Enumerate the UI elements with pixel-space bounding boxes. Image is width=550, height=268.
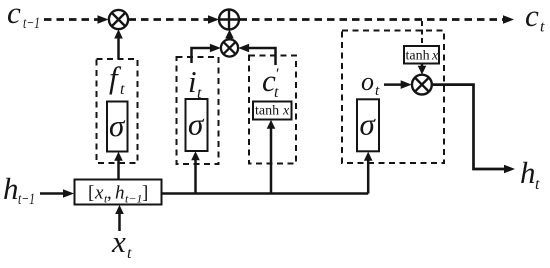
multiply node M3 [412, 75, 432, 95]
svg-text:c: c [7, 0, 21, 30]
svg-text:h: h [115, 183, 125, 204]
svg-text:x: x [431, 49, 439, 64]
node x_t label [111, 224, 132, 262]
svg-text:h: h [3, 171, 19, 206]
svg-text:t: t [535, 176, 540, 193]
tanh label output [406, 49, 440, 64]
wire arrow o_t to M3 [384, 80, 412, 89]
svg-text:σ: σ [109, 108, 126, 143]
wire M3 to h_t output [432, 85, 515, 174]
svg-text:σ: σ [188, 107, 205, 142]
sigma glyph o [360, 107, 377, 142]
multiply node M1 [109, 10, 128, 29]
svg-text:tanh: tanh [255, 104, 279, 119]
node c_t label [525, 0, 545, 36]
input gate dashed box [177, 57, 219, 164]
svg-text:x: x [282, 104, 290, 119]
wire arrow concat box to sigma f [114, 152, 123, 180]
wire dashed from c_{t-1} to multiply M1 [44, 15, 109, 24]
adder node A1 [219, 10, 239, 30]
svg-text:i: i [188, 64, 197, 99]
svg-text:h: h [520, 155, 536, 190]
svg-text:,: , [107, 183, 112, 204]
candidate gate dashed box [249, 56, 296, 164]
wire dashed from M1 to adder A1 [129, 15, 220, 24]
concat box [x_t, h_{t-1}] [75, 180, 162, 205]
sigma box o [357, 99, 379, 151]
wire arrow tanh output to M3 [418, 64, 427, 75]
svg-text:t−1: t−1 [125, 192, 142, 206]
wire candidate gate to M2 [238, 44, 275, 65]
svg-text:t−1: t−1 [18, 191, 35, 208]
wire arrow bottom wire to tanh candidate [267, 120, 276, 194]
svg-text:x: x [94, 183, 104, 204]
svg-text:[: [ [88, 183, 94, 204]
sigma glyph f [109, 108, 126, 143]
wire dashed from A1 to c_t output [240, 15, 515, 24]
multiply node M2 [221, 39, 238, 56]
wire input gate to M2 [192, 44, 221, 63]
c'_t label [262, 63, 279, 101]
i_t label [188, 64, 202, 102]
concat box label [88, 183, 148, 206]
svg-text:′: ′ [275, 66, 279, 83]
svg-text:c: c [525, 0, 539, 33]
svg-text:t: t [127, 245, 132, 262]
wire arrow h_{t-1} to concat box [40, 189, 74, 198]
node h_{t-1} label [3, 171, 35, 208]
wire arrow M2 to A1 [225, 30, 234, 40]
node c_{t-1} label [7, 0, 40, 32]
f_t label [109, 60, 125, 98]
tanh box output [404, 46, 439, 64]
wire arrow bottom wire to sigma o [364, 152, 373, 194]
node h_t label [520, 155, 540, 193]
sigma box f [107, 102, 128, 152]
wire dashed from main line to tanh output [421, 21, 423, 46]
o_t label [361, 67, 380, 99]
svg-text:tanh: tanh [406, 49, 430, 64]
tanh box candidate [253, 102, 292, 120]
wire arrow x_t to concat box [115, 205, 124, 231]
sigma box i [186, 99, 208, 151]
svg-text:t: t [540, 19, 545, 36]
wire arrow bottom wire to sigma i [191, 151, 200, 193]
svg-text:t−1: t−1 [23, 15, 40, 32]
svg-text:σ: σ [360, 107, 377, 142]
svg-text:]: ] [142, 183, 148, 204]
svg-text:o: o [361, 67, 374, 96]
sigma glyph i [188, 107, 205, 142]
output gate dashed box [342, 31, 444, 164]
wire arrow forget gate to M1 [114, 29, 123, 59]
forget gate dashed box [97, 59, 138, 163]
bottom wire from concat box [162, 192, 369, 195]
tanh label candidate [255, 104, 290, 119]
svg-text:t: t [274, 84, 279, 101]
svg-text:t: t [120, 81, 125, 98]
